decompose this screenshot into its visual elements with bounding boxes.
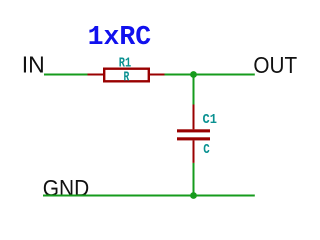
svg-text:OUT: OUT xyxy=(253,52,297,78)
label GND xyxy=(43,175,89,201)
junction node GND xyxy=(190,192,197,199)
junction node OUT xyxy=(190,71,197,78)
svg-text:C: C xyxy=(203,142,210,158)
svg-text:R1: R1 xyxy=(119,57,131,72)
capacitor C1 bottom plate xyxy=(177,137,210,140)
svg-text:IN: IN xyxy=(22,52,45,78)
wire R1 to OUT xyxy=(165,74,255,76)
wire junction to C1 xyxy=(193,75,195,106)
pin 1 of R1 xyxy=(88,74,104,76)
wire IN to R1 xyxy=(44,74,88,76)
svg-text:1xRC: 1xRC xyxy=(88,22,152,52)
svg-text:C1: C1 xyxy=(203,112,217,128)
wire C1 to GND rail xyxy=(193,163,195,196)
wire GND rail xyxy=(43,195,255,197)
svg-text:GND: GND xyxy=(43,175,89,201)
svg-text:R: R xyxy=(124,70,130,85)
capacitor C1 top plate xyxy=(177,129,210,132)
pin 2 of C1 xyxy=(193,140,195,163)
resistor R1 body xyxy=(104,69,149,82)
pin 1 of C1 xyxy=(193,105,195,130)
pin 2 of R1 xyxy=(150,74,165,76)
label OUT xyxy=(253,52,297,78)
